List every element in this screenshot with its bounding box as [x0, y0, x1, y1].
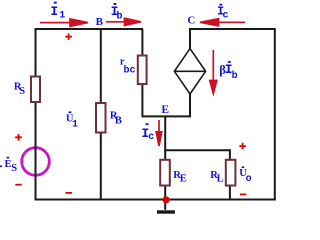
svg-text:c: c: [148, 132, 154, 143]
svg-text:E: E: [180, 173, 187, 184]
svg-text:b: b: [232, 70, 238, 82]
svg-text:C: C: [187, 15, 195, 27]
svg-text:c: c: [223, 11, 229, 22]
svg-text:o: o: [246, 174, 252, 185]
svg-text:E: E: [161, 104, 169, 116]
svg-text:S: S: [19, 86, 25, 97]
svg-text:b: b: [117, 11, 123, 23]
svg-text:B: B: [115, 115, 122, 126]
svg-text:L: L: [217, 173, 224, 184]
svg-text:1: 1: [59, 11, 65, 22]
svg-text:B: B: [96, 16, 104, 28]
svg-text:bc: bc: [124, 64, 136, 76]
svg-text:1: 1: [72, 119, 78, 130]
svg-text:S: S: [11, 163, 17, 174]
svg-text:I: I: [50, 4, 58, 19]
